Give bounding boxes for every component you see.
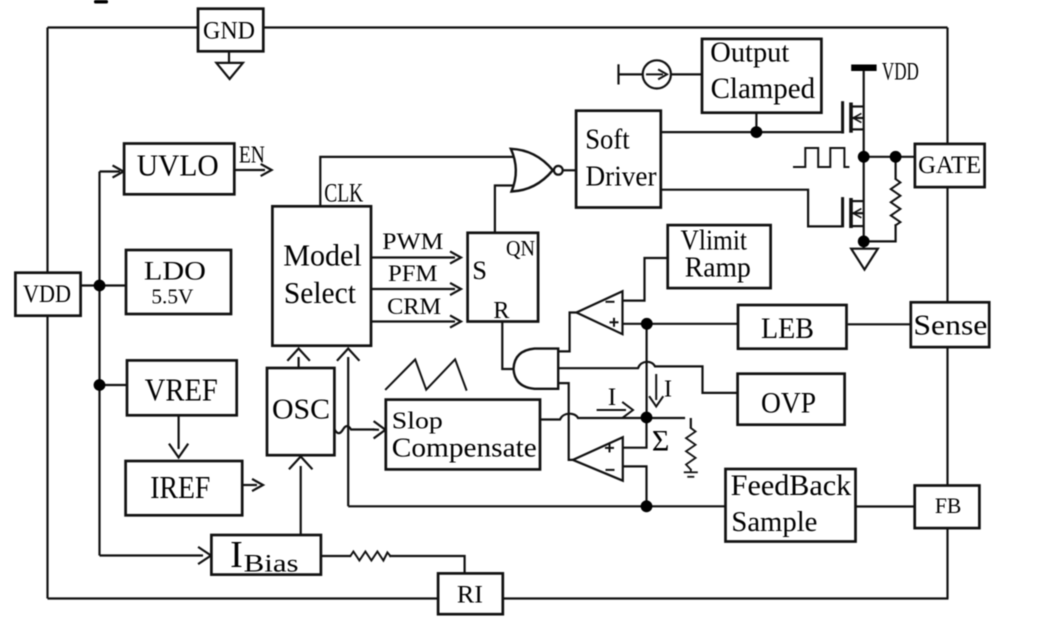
svg-text:Soft: Soft xyxy=(585,124,630,156)
svg-text:OSC: OSC xyxy=(272,395,330,426)
svg-text:Driver: Driver xyxy=(586,161,657,193)
svg-text:VDD: VDD xyxy=(882,58,919,85)
svg-text:I: I xyxy=(664,377,672,403)
svg-text:5.5V: 5.5V xyxy=(151,284,193,308)
svg-text:OVP: OVP xyxy=(761,387,816,420)
svg-text:Select: Select xyxy=(284,275,356,310)
svg-text:QN: QN xyxy=(506,236,535,261)
svg-text:LEB: LEB xyxy=(761,312,814,345)
svg-text:Clamped: Clamped xyxy=(711,73,816,105)
svg-text:CRM: CRM xyxy=(387,294,441,320)
svg-text:Bias: Bias xyxy=(244,550,299,577)
svg-text:Sample: Sample xyxy=(731,506,817,538)
svg-text:PFM: PFM xyxy=(388,261,438,287)
svg-text:PWM: PWM xyxy=(382,229,443,255)
svg-text:I: I xyxy=(608,384,616,411)
svg-text:Σ: Σ xyxy=(652,424,669,457)
svg-text:FB: FB xyxy=(935,493,962,518)
svg-text:GND: GND xyxy=(203,18,255,45)
svg-text:Compensate: Compensate xyxy=(392,433,537,463)
svg-text:R: R xyxy=(493,298,509,324)
svg-text:LDO: LDO xyxy=(144,257,206,286)
svg-text:Slop: Slop xyxy=(392,409,443,435)
svg-text:UVLO: UVLO xyxy=(137,147,219,182)
svg-text:VDD: VDD xyxy=(23,281,71,308)
svg-text:VREF: VREF xyxy=(145,372,218,408)
svg-text:S: S xyxy=(472,255,487,285)
svg-text:Model: Model xyxy=(283,238,362,273)
svg-text:EN: EN xyxy=(239,143,265,169)
svg-text:CLK: CLK xyxy=(324,178,363,208)
svg-text:FeedBack: FeedBack xyxy=(731,469,852,502)
svg-text:GATE: GATE xyxy=(918,150,981,179)
svg-text:I: I xyxy=(230,534,243,576)
svg-text:IREF: IREF xyxy=(150,469,210,505)
svg-text:Output: Output xyxy=(710,37,789,69)
svg-text:Sense: Sense xyxy=(913,311,987,342)
svg-text:Ramp: Ramp xyxy=(685,252,751,284)
svg-text:RI: RI xyxy=(457,580,483,609)
